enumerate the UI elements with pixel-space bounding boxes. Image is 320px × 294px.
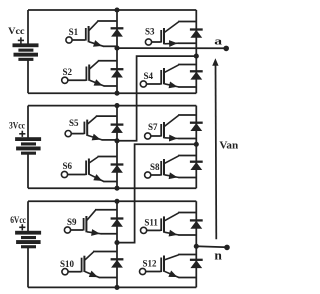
svg-text:Van: Van [219, 141, 238, 152]
svg-text:S10: S10 [60, 259, 75, 269]
svg-text:S4: S4 [144, 71, 154, 81]
svg-text:S5: S5 [69, 118, 79, 128]
svg-text:6Vcc: 6Vcc [10, 215, 26, 225]
svg-text:S9: S9 [67, 217, 77, 227]
svg-text:S2: S2 [63, 67, 73, 77]
svg-text:S7: S7 [148, 122, 158, 132]
svg-text:S12: S12 [143, 259, 158, 269]
svg-text:Vcc: Vcc [8, 26, 24, 36]
svg-text:a: a [214, 35, 222, 47]
svg-text:3Vcc: 3Vcc [9, 121, 25, 131]
svg-text:S11: S11 [144, 218, 158, 228]
svg-text:S1: S1 [69, 27, 79, 37]
svg-text:S3: S3 [145, 27, 155, 37]
svg-text:n: n [214, 248, 222, 262]
svg-text:S6: S6 [63, 161, 73, 171]
svg-text:S8: S8 [150, 162, 160, 172]
